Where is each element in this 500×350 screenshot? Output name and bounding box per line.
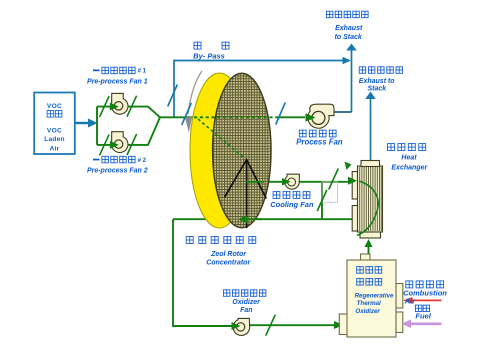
process fan U bbox=[308, 104, 334, 128]
label: heat exchanger bbox=[388, 144, 395, 151]
RTO: regenerative thermal oxidizer bbox=[361, 254, 371, 261]
svg-text:Air: Air bbox=[404, 297, 417, 306]
svg-text:Heat: Heat bbox=[401, 155, 417, 162]
label: exhaust to stack 1 bbox=[326, 11, 333, 18]
label: oxidizer fan bbox=[223, 290, 230, 297]
svg-text:Exhaust to: Exhaust to bbox=[359, 78, 396, 85]
arrow: cooling air into heat exchanger bbox=[348, 177, 357, 185]
wire: hot regen air from heat exchanger to rotor bbox=[173, 218, 357, 220]
svg-text:VOC: VOC bbox=[47, 127, 62, 134]
label: cooling fan bbox=[273, 192, 280, 199]
svg-text:Regenerative: Regenerative bbox=[355, 292, 394, 299]
cooling fan bbox=[285, 174, 300, 189]
svg-text:Air: Air bbox=[49, 145, 59, 152]
svg-text:Exhaust: Exhaust bbox=[335, 25, 363, 32]
wire: green duct split to pre-process fans bbox=[96, 107, 98, 145]
svg-text:# 1: # 1 bbox=[138, 69, 147, 75]
svg-text:Thermal: Thermal bbox=[357, 300, 381, 307]
svg-text:Cooling Fan: Cooling Fan bbox=[270, 200, 314, 209]
pre-process fan 2 bbox=[112, 132, 128, 153]
faint gray box at branch bbox=[322, 182, 338, 203]
svg-text:Zeol Rotor: Zeol Rotor bbox=[210, 251, 247, 258]
svg-text:Process Fan: Process Fan bbox=[296, 138, 343, 147]
wire: main duct to rotor bbox=[160, 116, 196, 118]
wire: dashed process air through rotor bbox=[194, 116, 278, 118]
svg-text:Oxidizer: Oxidizer bbox=[232, 299, 261, 306]
label: zeol rotor concentrator bbox=[186, 237, 193, 244]
svg-text:Stack: Stack bbox=[367, 86, 387, 93]
rotor drum (yellow) bbox=[190, 73, 249, 228]
svg-text:Pre-process Fan 2: Pre-process Fan 2 bbox=[87, 167, 148, 174]
arrow: regen air into rotor bbox=[244, 218, 262, 220]
label: pre-process fan 1 bbox=[93, 70, 100, 72]
heat exchanger U bbox=[352, 172, 358, 200]
label: by-pass bbox=[194, 42, 201, 49]
label: process fan bbox=[299, 130, 306, 137]
wire: exhaust stack 2 vertical bbox=[370, 98, 372, 161]
wire: rotor outlet to process fan bbox=[277, 116, 305, 118]
svg-text:By- Pass: By- Pass bbox=[193, 52, 225, 61]
svg-text:Fuel: Fuel bbox=[415, 311, 431, 320]
svg-text:Concentrator: Concentrator bbox=[206, 259, 251, 266]
wire: cooling air line from rotor bbox=[262, 181, 286, 183]
wire: exhaust stack 1 vertical bbox=[351, 49, 353, 112]
rotor back edge (gray) bbox=[190, 74, 216, 228]
svg-text:Oxidizer: Oxidizer bbox=[355, 308, 380, 315]
wire: branch down to regen line bbox=[321, 182, 323, 219]
svg-text:# 2: # 2 bbox=[138, 158, 147, 164]
wire: RTO to heat exchanger bbox=[368, 246, 370, 258]
label: exhaust to stack 2 bbox=[359, 67, 366, 74]
svg-text:to Stack: to Stack bbox=[335, 34, 363, 41]
VOC laden air box bbox=[34, 93, 75, 155]
slashes (dampers) bbox=[100, 96, 110, 117]
svg-text:VOC: VOC bbox=[47, 103, 62, 110]
arrow: fuel (violet) bbox=[410, 322, 442, 325]
heat exchanger circulation arc bbox=[357, 181, 378, 236]
oxidizer fan bbox=[233, 318, 249, 335]
arrow: VOC box outlet bbox=[76, 122, 90, 124]
label: pre-process fan 2 bbox=[93, 159, 100, 161]
svg-text:Laden: Laden bbox=[44, 136, 64, 143]
wire: dashed diagonal to regen sector bbox=[198, 119, 243, 157]
rotor face (hatched) bbox=[213, 73, 271, 228]
arrow: combustion air (red) bbox=[412, 299, 442, 301]
wire: process fan outlet to stack bbox=[333, 111, 352, 113]
pre-process fan 1 bbox=[112, 93, 128, 114]
wire: bypass duct blue line bbox=[174, 61, 346, 118]
svg-text:Pre-process Fan 1: Pre-process Fan 1 bbox=[87, 79, 148, 86]
label: combustion air bbox=[406, 281, 413, 288]
wire: cooling line over rotor bbox=[246, 181, 264, 183]
wire: oxidizer fan to RTO bbox=[249, 324, 336, 326]
rotor rotation arrow bbox=[188, 71, 202, 114]
wire: desorb outlet down and to oxidizer fan bbox=[173, 219, 232, 326]
svg-text:Fan: Fan bbox=[240, 307, 252, 314]
svg-text:Exchanger: Exchanger bbox=[391, 164, 428, 171]
label: fuel bbox=[415, 305, 422, 312]
rotor sector lines bbox=[246, 160, 248, 229]
